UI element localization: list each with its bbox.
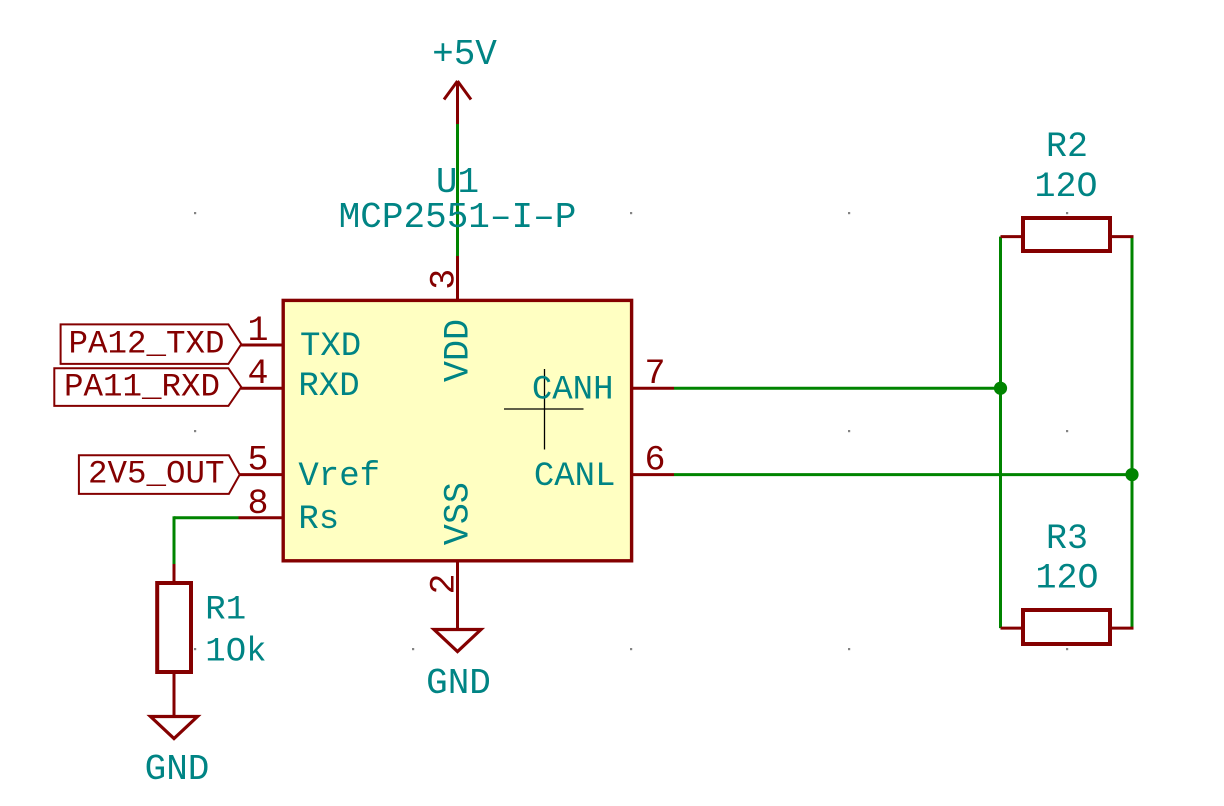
svg-text:TXD: TXD [300,328,361,366]
svg-text:5: 5 [247,441,268,481]
svg-text:RXD: RXD [298,368,359,406]
svg-text:8: 8 [247,484,268,524]
svg-text:1Ok: 1Ok [205,633,266,671]
svg-text:2V5_OUT: 2V5_OUT [88,456,225,493]
svg-text:12O: 12O [1034,167,1097,207]
svg-text:6: 6 [645,441,666,481]
svg-text:12O: 12O [1035,559,1098,599]
svg-text:Rs: Rs [298,501,339,539]
svg-text:MCP2551–I–P: MCP2551–I–P [339,197,577,238]
svg-text:2: 2 [425,573,465,594]
svg-text:PA11_RXD: PA11_RXD [64,368,220,405]
svg-text:CANH: CANH [532,372,614,410]
svg-text:VDD: VDD [439,319,479,382]
svg-text:GND: GND [426,663,491,704]
svg-text:7: 7 [645,354,666,394]
svg-text:+5V: +5V [432,34,497,75]
svg-text:Vref: Vref [298,458,380,496]
svg-text:VSS: VSS [439,482,479,545]
svg-text:R1: R1 [205,591,246,629]
svg-text:4: 4 [247,354,268,394]
svg-text:R2: R2 [1046,127,1088,167]
svg-text:GND: GND [145,749,210,790]
svg-text:3: 3 [425,269,465,290]
svg-text:PA12_TXD: PA12_TXD [69,326,225,363]
svg-text:R3: R3 [1046,519,1088,559]
svg-text:1: 1 [247,311,268,351]
svg-text:CANL: CANL [534,458,616,496]
